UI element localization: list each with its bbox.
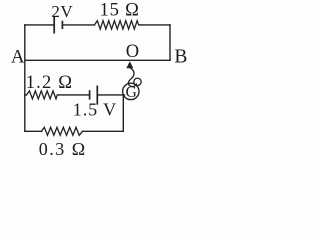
wire branch stub [25,94,27,96]
arrow tail curl loop [134,78,141,85]
wire right vertical [169,25,171,60]
wire top-left segment [25,24,54,26]
svg-text:0.3 Ω: 0.3 Ω [39,139,87,159]
wire bottom-right [83,130,124,132]
galvanometer G circle [123,83,139,99]
svg-text:15 Ω: 15 Ω [100,1,140,21]
resistor R3 0.3 ohm [42,127,83,135]
resistor R1 15 ohm [95,21,141,29]
wire top-mid segment [62,24,94,26]
wire bottom-left [25,130,42,132]
wire down from G branch [122,95,124,131]
svg-text:B: B [174,47,187,68]
wire left vertical [24,25,26,131]
arrow curly tail from G [128,68,136,87]
arrow head at O [126,61,133,68]
svg-text:A: A [11,46,25,67]
svg-text:2V: 2V [51,2,73,21]
battery B1 2V plates [54,17,62,34]
battery B2 1.5V plates [90,86,98,105]
wire branch mid [59,94,90,96]
svg-text:O: O [126,42,139,62]
resistor R2 1.2 ohm [27,91,59,99]
svg-text:1.5 V: 1.5 V [73,100,117,120]
wire branch right to G [97,94,124,96]
wire middle A-O-B [25,59,170,61]
wire top-right segment [140,24,170,26]
svg-text:1.2 Ω: 1.2 Ω [26,73,73,93]
